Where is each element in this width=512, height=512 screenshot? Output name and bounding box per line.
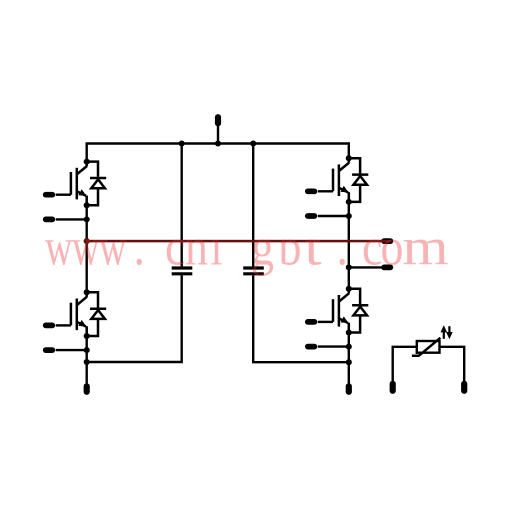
wire: left leg from Q2 aux node down to DC- pin <box>85 350 87 384</box>
terminal pin: thermistor left pin <box>390 384 396 391</box>
svg-text:n: n <box>185 218 208 277</box>
svg-text:m: m <box>403 218 449 277</box>
wire: right midpoint stub to right edge pin <box>349 266 382 268</box>
terminal pin: aux emitter pin <box>46 347 53 353</box>
terminal pin: DC+ terminal above top bus <box>215 117 221 143</box>
terminal pin: aux emitter pin <box>308 344 315 350</box>
IGBT body bar <box>76 168 79 200</box>
terminal pin: right DC- terminal at bottom <box>346 386 352 392</box>
terminal pin: phase output pin at right <box>384 238 390 244</box>
svg-text:.: . <box>134 218 145 277</box>
svg-text:t: t <box>305 218 322 277</box>
wire: diode anode lead back to emitter node <box>87 319 98 336</box>
junction: aux emitter node dot <box>84 216 90 222</box>
wire: phase output line from left leg to right edge pin <box>87 240 382 242</box>
terminal pin: gate pin <box>46 192 53 198</box>
diode anode triangle <box>91 310 105 319</box>
wire: collector lead and slant into IGBT body <box>348 158 351 163</box>
junction: DC+ pin to top bus <box>215 140 221 146</box>
wire: anti-parallel diode branch from collector <box>349 289 360 304</box>
junction: aux emitter node dot <box>84 347 90 353</box>
wire: collector lead and slant into IGBT body <box>85 162 88 167</box>
wire: emitter slant with arrowhead <box>339 318 348 323</box>
wire: emitter lead <box>348 192 351 202</box>
thermistor body rectangle <box>417 341 440 353</box>
wire: emitter slant with arrowhead <box>77 322 86 327</box>
IGBT gate bar <box>332 299 335 322</box>
thermistor RT1: NTC temperature sensor <box>393 338 465 381</box>
wire: anti-parallel diode branch from collector <box>349 158 360 173</box>
wire: gate lead <box>318 321 333 323</box>
junction: emitter node dot <box>84 333 90 339</box>
terminal pin: aux emitter pin <box>308 213 315 219</box>
diode anode triangle <box>353 176 367 185</box>
wire: emitter node down to aux emitter node <box>85 336 87 350</box>
wire: emitter node down to aux emitter node <box>85 205 87 219</box>
wire: DC+ top bus from left leg to right leg <box>87 144 349 162</box>
node: right leg midpoint output node <box>346 264 352 270</box>
diode cathode bar <box>90 307 106 310</box>
terminal pin: left DC- terminal at bottom <box>84 386 90 392</box>
wire: right leg from Q3 aux node down to Q4 collector <box>348 216 350 289</box>
terminal pin: right midpoint pin at right <box>384 265 390 271</box>
wire: emitter lead <box>348 323 351 333</box>
junction: collector node dot <box>84 159 90 165</box>
diode cathode bar <box>352 304 368 307</box>
wire: aux emitter lead <box>318 215 349 217</box>
wire: anti-parallel diode branch from collector <box>87 292 98 307</box>
wire: thermistor left lead <box>393 347 417 381</box>
wire: collector lead and slant into IGBT body <box>85 292 88 297</box>
wire: gate lead <box>318 190 333 192</box>
wire: emitter node down to aux emitter node <box>348 333 350 347</box>
wire: diode anode lead back to emitter node <box>349 315 360 332</box>
wire: red-tinted overlay where watermark crosses the phase output line <box>87 240 391 243</box>
junction: phase node tint <box>84 238 90 244</box>
wire: right leg from Q4 aux node down to DC- pin <box>348 347 350 384</box>
wire: diode anode lead back to emitter node <box>349 185 360 202</box>
capacitor C2: snubber capacitor right <box>243 268 264 274</box>
diode anode triangle <box>353 307 367 316</box>
IGBT gate bar <box>70 303 73 326</box>
junction: aux emitter node dot <box>346 344 352 350</box>
junction: emitter node dot <box>84 202 90 208</box>
svg-text:g: g <box>251 218 274 277</box>
transistor Q3: top-right IGBT with anti-parallel diode, gate pin and aux emitter pin <box>308 155 369 219</box>
junction: emitter node dot <box>346 199 352 205</box>
junction: C1 branch on DC+ bus <box>179 140 185 146</box>
svg-text:o: o <box>381 218 404 277</box>
terminal pin: thermistor right pin <box>461 384 467 391</box>
svg-text:c: c <box>362 218 382 277</box>
transistor Q4: bottom-right IGBT with anti-parallel diode, gate pin and aux emitter pin <box>308 286 369 350</box>
svg-text:.: . <box>337 218 348 277</box>
up arrow of thermistor symbol <box>441 325 448 339</box>
transistor Q1: top-left IGBT with anti-parallel diode, gate pin and aux emitter pin <box>46 159 107 223</box>
svg-text:i: i <box>211 218 223 277</box>
thermistor diagonal stroke with foot <box>412 338 441 356</box>
terminal pin: aux emitter pin <box>46 217 53 223</box>
wire: thermistor right lead <box>440 347 465 381</box>
junction: C2 branch on DC+ bus <box>250 140 256 146</box>
transistor Q2: bottom-left IGBT with anti-parallel diode, gate pin and aux emitter pin <box>46 289 107 353</box>
junction: collector node dot <box>346 155 352 161</box>
junction: collector node dot <box>346 286 352 292</box>
diode anode triangle <box>91 179 105 188</box>
wire: emitter node down to aux emitter node <box>348 202 350 216</box>
svg-text:w: w <box>45 218 73 277</box>
node: left phase output node on left leg <box>84 238 90 244</box>
wire: collector lead and slant into IGBT body <box>348 289 351 294</box>
terminal pin: gate pin <box>46 323 53 329</box>
svg-text:w: w <box>99 218 127 277</box>
capacitor C1: snubber capacitor left <box>172 268 193 274</box>
wire: aux emitter lead <box>56 218 87 220</box>
junction: left DC- node to snubber capacitor C1 bottom <box>84 359 90 365</box>
wire: emitter lead <box>85 326 88 336</box>
junction: emitter node dot <box>346 329 352 335</box>
terminal pin: gate pin <box>308 319 315 325</box>
wire: C1 branch from bus down to capacitor <box>180 144 182 267</box>
down arrow of thermistor symbol <box>446 326 453 339</box>
diode cathode bar <box>352 173 368 176</box>
wire: aux emitter lead <box>56 349 87 351</box>
IGBT gate bar <box>332 169 335 192</box>
wire: diode anode lead back to emitter node <box>87 188 98 205</box>
terminal pin: gate pin <box>308 188 315 194</box>
diode cathode bar <box>90 177 106 180</box>
wire: aux emitter lead <box>318 345 349 347</box>
junction: collector node dot <box>84 289 90 295</box>
IGBT body bar <box>76 299 79 331</box>
wire: C1 bottom down and left to left DC- node <box>87 275 182 362</box>
wire: anti-parallel diode branch from collector <box>87 162 98 177</box>
watermark text: www.cnigbt.com <box>45 218 449 277</box>
IGBT gate bar <box>70 172 73 195</box>
wire: emitter slant with arrowhead <box>339 188 348 193</box>
wire: left leg from Q1 aux emitter node down to Q2 collector <box>85 219 87 292</box>
IGBT body bar <box>338 295 341 327</box>
wire: emitter slant with arrowhead <box>77 191 86 196</box>
junction: aux emitter node dot <box>346 213 352 219</box>
wire: C2 bottom down and right to right DC- node <box>253 275 349 362</box>
IGBT body bar <box>338 164 341 196</box>
wire: gate lead <box>56 324 71 326</box>
junction: right DC- node to snubber capacitor C2 bottom <box>346 359 352 365</box>
wire: emitter lead <box>85 196 88 206</box>
wire: C2 branch from bus down to capacitor <box>252 144 254 267</box>
svg-text:b: b <box>279 218 302 277</box>
wire: gate lead <box>56 194 71 196</box>
